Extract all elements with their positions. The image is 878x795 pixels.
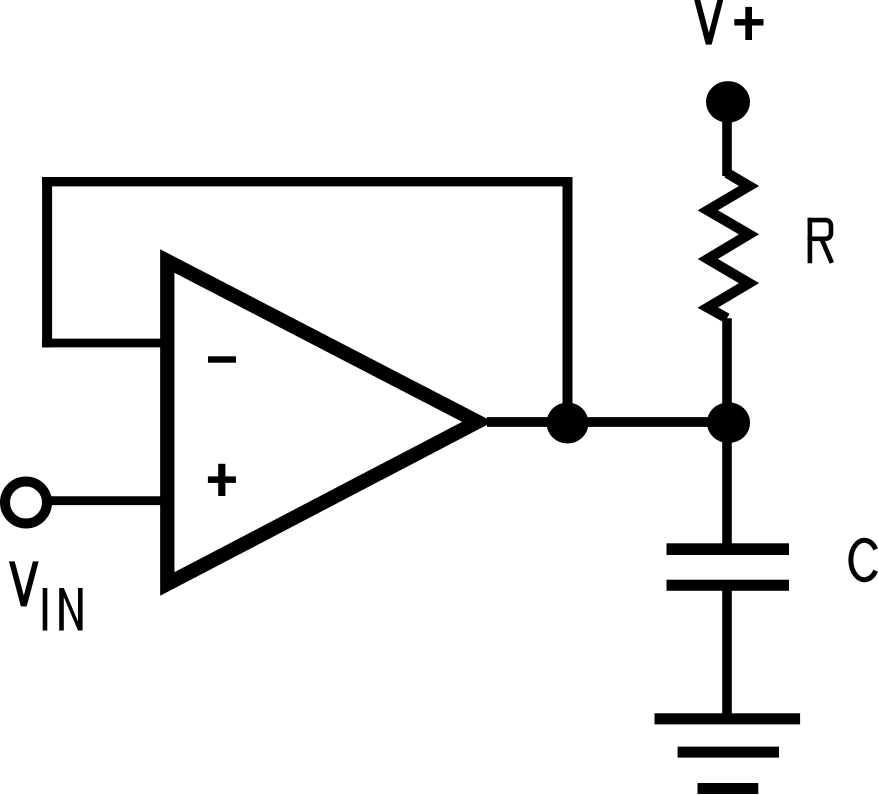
wire V+ dot to resistor <box>722 102 732 176</box>
node V+ terminal dot <box>706 81 750 123</box>
wire feedback to inverting input <box>42 339 168 348</box>
input terminal circle VIN <box>5 482 47 524</box>
wire resistor to node <box>722 318 732 422</box>
wire feedback vertical right <box>563 182 573 422</box>
capacitor C top plate <box>667 543 790 555</box>
resistor R <box>708 173 749 318</box>
op-amp U1 <box>167 261 477 584</box>
node junction dot (R / C / output) <box>707 402 750 443</box>
wire feedback top horizontal <box>42 177 572 186</box>
label V+ <box>694 0 764 45</box>
node output dot <box>547 403 589 444</box>
label R <box>808 218 832 263</box>
label C <box>851 540 876 579</box>
wire op-amp output to node <box>487 417 731 427</box>
wire feedback vertical left <box>42 177 52 347</box>
wire node to capacitor <box>722 422 732 544</box>
capacitor C bottom plate <box>667 580 790 591</box>
wire capacitor to ground <box>722 590 732 714</box>
op-amp plus symbol <box>208 464 236 496</box>
label VIN <box>9 561 83 630</box>
wire VIN input to non-inverting input <box>48 496 168 505</box>
ground <box>655 713 801 794</box>
op-amp minus symbol <box>208 356 236 362</box>
